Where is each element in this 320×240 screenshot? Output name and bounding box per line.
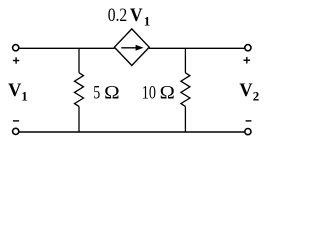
polarity + of port V1 <box>13 57 19 63</box>
svg-text:V: V <box>239 80 252 101</box>
svg-text:0.2: 0.2 <box>108 5 128 26</box>
svg-text:V: V <box>130 5 143 26</box>
svg-text:2: 2 <box>253 88 259 103</box>
gain label 0.2 V1 <box>108 5 151 28</box>
dependent current source U1: arrow <box>121 45 143 51</box>
port label V2 <box>239 80 259 104</box>
resistor R1 5ohm (left branch) with leads <box>75 48 84 132</box>
svg-text:Ω: Ω <box>160 83 175 104</box>
value label 5 ohm <box>93 83 120 104</box>
polarity - of port V2 <box>246 120 252 122</box>
svg-text:1: 1 <box>144 14 151 29</box>
svg-text:10: 10 <box>142 83 156 104</box>
svg-text:V: V <box>8 80 21 101</box>
wire: bottom rail from bottom-left terminal to bottom-right terminal <box>19 131 244 133</box>
terminal top-left (open circle) <box>13 45 19 51</box>
svg-text:Ω: Ω <box>104 83 120 104</box>
resistor R2 10ohm (right branch) with leads <box>181 48 190 132</box>
dependent current source U1: diamond body <box>114 29 149 66</box>
wire: current source right vertex to node B <box>149 47 186 49</box>
svg-text:1: 1 <box>21 88 28 103</box>
value label 10 ohm <box>142 83 175 104</box>
svg-text:5: 5 <box>93 83 100 104</box>
wire: node A to current source left vertex <box>79 47 115 49</box>
polarity - of port V1 <box>13 120 19 122</box>
terminal top-right (open circle) <box>245 45 251 51</box>
wire: node B to top-right terminal <box>186 47 244 49</box>
terminal bottom-right (open circle) <box>245 129 251 135</box>
port label V1 <box>8 80 28 104</box>
wire: top-left terminal to node A <box>19 47 79 49</box>
polarity + of port V2 <box>244 57 251 64</box>
terminal bottom-left (open circle) <box>13 128 19 134</box>
